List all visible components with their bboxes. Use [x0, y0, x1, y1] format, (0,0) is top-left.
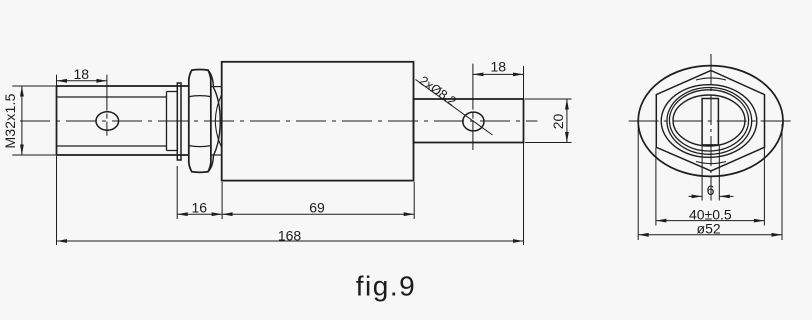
arrow 20 top [565, 99, 569, 110]
arrow 16 right [212, 212, 223, 216]
inner bore ellipse [673, 95, 745, 146]
arrow M32 bottom [20, 145, 24, 156]
dimension 69 extension right [413, 182, 415, 219]
arrow 18L left [57, 79, 68, 83]
nut second face inner arc top [215, 94, 222, 121]
dimension M32x1.5 extension top [12, 85, 56, 87]
dimension 52 extension right [781, 124, 783, 240]
dimension 20 extension top [525, 98, 572, 100]
arrow 18L right [96, 79, 107, 83]
svg-text:18: 18 [74, 66, 90, 82]
arrow 20 bottom [565, 132, 569, 143]
dimension 16 extension left [176, 166, 178, 219]
double ellipse outer [667, 88, 752, 155]
rod hole vertical centerline [472, 64, 474, 150]
shaft hole vertical centerline [106, 75, 108, 136]
svg-text:18: 18 [491, 59, 507, 75]
dimension 40 extension left [655, 148, 657, 226]
thread relief groove [167, 92, 178, 151]
hex nut side view outline [189, 70, 211, 173]
end rod [414, 99, 524, 143]
dimension 6 extension right [718, 145, 720, 201]
ring ellipse [661, 85, 757, 158]
dimension 20 extension bottom [525, 142, 572, 144]
arrow 18R right [513, 73, 524, 77]
svg-text:168: 168 [278, 228, 302, 244]
hole in shaft [96, 112, 119, 130]
svg-text:M32x1.5: M32x1.5 [2, 93, 18, 148]
arrow 69 left [222, 212, 233, 216]
double ellipse inner [669, 90, 748, 151]
dimension 20 line [566, 99, 568, 143]
leader line 2xO8.2 [416, 80, 493, 136]
dimension 40 extension right [763, 148, 765, 226]
dimension 16-69 line [177, 213, 414, 215]
arrow 168 right [513, 239, 524, 243]
nut chamfer line lower [189, 146, 211, 147]
dimension 16-69 shared extension [221, 182, 223, 219]
dimension 18 left line [57, 80, 107, 82]
dimension 18 right line [473, 73, 524, 75]
thread minor line top [57, 96, 167, 98]
washer plate [177, 83, 181, 160]
horizontal centerline left view [20, 120, 537, 122]
nut second face silhouette [208, 70, 220, 172]
thread minor line bottom [57, 145, 167, 147]
dimension 168 extension right [523, 143, 525, 245]
arrow 40 left [656, 219, 667, 223]
hexagon chamfer arc bottom [696, 162, 726, 164]
dimension 40 line [656, 220, 765, 222]
right view vertical centerline [710, 54, 712, 201]
right view horizontal centerline [629, 120, 796, 122]
right view outer ellipse [638, 66, 783, 177]
dimension 6 extension left [701, 145, 703, 201]
svg-text:2xØ8.2: 2xØ8.2 [417, 73, 459, 109]
main cylinder body [222, 62, 414, 181]
dimension 52 extension left [637, 124, 639, 240]
arrow 52 left [638, 233, 649, 237]
dimension 168 extension left [56, 156, 58, 246]
arrow 18R left [473, 73, 484, 77]
dimension 168 line [57, 240, 524, 242]
hexagon chamfer arc top [696, 78, 726, 80]
neck line bottom behind nut [211, 154, 222, 156]
threaded shaft body [57, 86, 190, 155]
arrow 69 right [404, 212, 415, 216]
arrow 40 right [754, 219, 765, 223]
arrow M32 top [20, 86, 24, 97]
dimension 18 right extension [523, 66, 525, 99]
dimension M32x1.5 line [21, 86, 23, 155]
dimension 6 line right [719, 195, 733, 197]
dimension M32x1.5 extension bottom [12, 154, 56, 156]
svg-text:16: 16 [192, 199, 208, 215]
arrow 6 left [692, 195, 703, 199]
neck line top behind nut [211, 86, 222, 88]
arrow 168 left [57, 239, 68, 243]
dimension 52 line [638, 234, 782, 236]
slot rectangle [702, 99, 718, 145]
hole in rod [463, 112, 484, 131]
svg-text:20: 20 [550, 114, 566, 130]
svg-text:6: 6 [707, 182, 715, 198]
dimension 6 line left [689, 195, 703, 197]
nut second face inner arc bottom [215, 121, 222, 148]
svg-text:ø52: ø52 [697, 221, 721, 237]
dimension 18 left extension [56, 75, 58, 86]
svg-text:69: 69 [309, 199, 325, 215]
svg-text:fig.9: fig.9 [356, 271, 416, 302]
arrow 16 left [177, 212, 188, 216]
arrow 52 right [772, 233, 783, 237]
arrow 6 right [719, 195, 730, 199]
right view hexagon [656, 71, 764, 171]
nut chamfer line upper [189, 96, 211, 97]
